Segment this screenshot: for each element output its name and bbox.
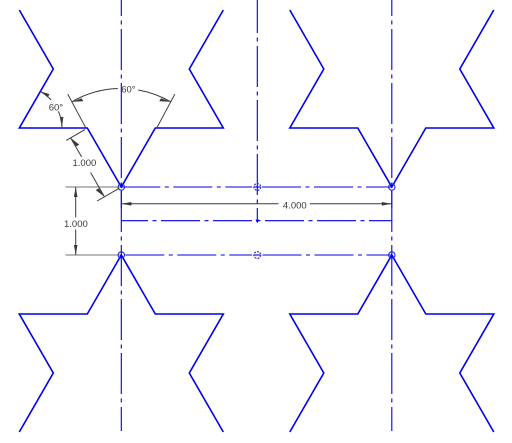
svg-text:1.000: 1.000	[73, 158, 97, 169]
svg-text:1.000: 1.000	[64, 219, 88, 230]
big 60 ext line left	[68, 94, 86, 127]
centerline vertical right column	[391, 0, 393, 431]
big 60 arc left segment	[72, 89, 118, 102]
dimension 4.000 line left segment	[121, 203, 278, 205]
centerline vertical middle column	[256, 0, 258, 222]
centerline horizontal top row bar through midpoint	[254, 186, 260, 188]
vertex circle bottom-left	[118, 252, 124, 258]
centerline horizontal bottom row left of midpoint (y=255)	[121, 254, 252, 256]
extension line gray top (y=187)	[66, 186, 122, 188]
dimension diagonal 1.000 ext line lower	[97, 188, 119, 201]
small 60 arrow upper	[40, 91, 49, 97]
arrow down at y=255	[74, 245, 78, 255]
big 60 arrow right	[159, 98, 170, 102]
centerline horizontal bottom row bar through midpoint	[254, 254, 260, 256]
star top-left outline	[19, 10, 223, 187]
big 60 arc right segment	[138, 90, 170, 102]
arrow 4.000 right	[382, 202, 392, 206]
star bottom-right outline	[290, 255, 494, 432]
svg-text:60°: 60°	[121, 84, 136, 95]
dimension 4.000 line right segment	[310, 203, 392, 205]
arrow diag upper	[71, 138, 80, 147]
big 60 arrow left	[72, 98, 83, 102]
arrow diag lower	[96, 188, 105, 197]
centerline horizontal middle (y=220.7)	[121, 220, 392, 222]
vertex circle top-right	[389, 184, 395, 190]
svg-text:60°: 60°	[49, 102, 64, 113]
star bottom-left outline	[19, 255, 223, 432]
svg-text:4.000: 4.000	[283, 200, 307, 211]
centerline middle end arrow	[256, 220, 260, 224]
midpoint marker bottom	[254, 252, 261, 259]
small 60 arrow lower	[60, 117, 64, 127]
midpoint marker top	[254, 184, 261, 191]
extension line 4.000 left (below left top vertex)	[120, 190, 122, 209]
arrow up at y=187	[74, 187, 78, 197]
centerline horizontal top row right of midpoint (y=187)	[262, 186, 392, 188]
dimension vertical 1.000 line lower part	[75, 230, 77, 256]
arrow 4.000 left	[121, 202, 131, 206]
vertex circle bottom-right	[389, 252, 395, 258]
dimension diagonal 1.000 line lower segment	[91, 173, 105, 197]
extension line gray bottom (y=255)	[66, 254, 122, 256]
dimension diagonal 1.000 ext line upper	[66, 130, 85, 141]
star top-right outline	[290, 10, 494, 187]
dimension vertical 1.000 line upper part	[75, 187, 77, 218]
vertex circle top-left	[118, 184, 124, 190]
small 60 arc lower segment	[58, 111, 61, 127]
extension line 4.000 right (below right top vertex)	[391, 190, 393, 209]
centerline horizontal top row left of midpoint (y=187)	[121, 186, 252, 188]
small 60 arc upper segment	[40, 91, 51, 100]
centerline vertical left column	[120, 0, 122, 431]
dimension diagonal 1.000 line upper segment	[71, 138, 82, 157]
centerline horizontal bottom row right of midpoint (y=255)	[263, 254, 392, 256]
big 60 ext line right	[157, 94, 175, 127]
